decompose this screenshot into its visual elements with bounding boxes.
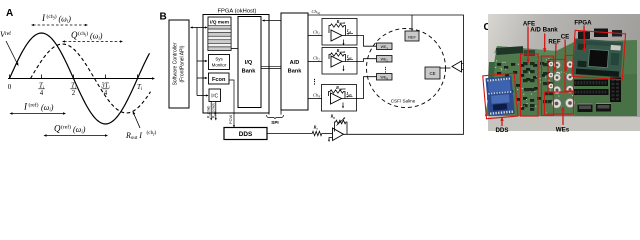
SPI underbrace: [267, 115, 284, 119]
block: Fcon: [209, 73, 230, 84]
svg-text:I/Q mem: I/Q mem: [210, 20, 229, 26]
svg-text:Bank: Bank: [242, 69, 257, 75]
svg-text:Monitor: Monitor: [212, 63, 227, 68]
I(ref)(w_i) span arrow: [12, 113, 65, 115]
svg-text:Fcon: Fcon: [212, 77, 226, 83]
svg-text:Software Controller: Software Controller: [173, 42, 179, 85]
op-amp A2: [331, 56, 342, 67]
red box WEs area: [545, 92, 574, 114]
svg-text:(ref): (ref): [29, 102, 39, 109]
electrode REF box: [405, 31, 419, 41]
Q(ch_j)(w_i) dashed span arrow: [64, 41, 121, 43]
svg-text:4: 4: [40, 90, 44, 97]
red arrow A/D Bank: [544, 34, 546, 53]
svg-text:CE: CE: [429, 71, 435, 76]
svg-text:Ch1: Ch1: [313, 30, 320, 36]
op-amp CE buffer: [452, 61, 462, 72]
red arrow DDS: [501, 117, 503, 126]
wire: bus to I2C: [197, 95, 208, 97]
FPGA daughterboard: [573, 38, 623, 77]
time axis: [8, 78, 153, 80]
svg-text:Ti: Ti: [39, 83, 45, 90]
wire: Rs to op-amp: [323, 133, 333, 135]
wire: REF electrode drop: [411, 15, 413, 31]
red box FPGA: [572, 30, 626, 79]
svg-text:A/D Bank: A/D Bank: [530, 27, 558, 34]
block: A/D Bank: [281, 13, 308, 110]
wire: SPI line from A/D Bank: [280, 110, 282, 115]
svg-text:Rout1: Rout1: [337, 19, 346, 25]
svg-text:Q: Q: [71, 30, 78, 40]
wire: I/Q Bank to A/D Bank bus: [261, 65, 281, 67]
wire: FCW frequency control word: [229, 80, 234, 127]
ground of op-amp 1: [343, 40, 345, 45]
red arrow WEs: [562, 107, 564, 125]
svg-text:WEs: WEs: [556, 127, 570, 134]
I(ch_j)(w_i) dashed span arrow: [33, 24, 86, 26]
svg-text:Sys: Sys: [215, 57, 223, 62]
op-amp stim driver: [333, 128, 344, 141]
svg-text:Ch2: Ch2: [313, 56, 320, 62]
electrode CE box: [425, 67, 440, 79]
svg-text:Chref: Chref: [312, 9, 322, 15]
svg-text:(ωi): (ωi): [41, 103, 54, 113]
svg-text:FPGA: FPGA: [574, 20, 592, 27]
svg-text:CE: CE: [561, 34, 570, 41]
red box DDS: [483, 73, 518, 119]
svg-text:3Ti: 3Ti: [100, 83, 110, 90]
block: FPGA (okHost) enclosure: [203, 15, 269, 114]
DDS daughterboard (blue): [485, 76, 514, 116]
svg-text:REF: REF: [408, 36, 416, 40]
electrode WE box: [377, 43, 393, 50]
solid reference sine Vref: [10, 33, 150, 124]
Vref pointer arrow: [6, 41, 18, 64]
red arrow CE: [565, 40, 566, 72]
svg-text:(FrontPanel API): (FrontPanel API): [180, 45, 186, 82]
svg-text:FCW: FCW: [228, 115, 233, 124]
TIA cell 1 enclosure: [322, 19, 357, 46]
wire: SPI line from I/Q Bank: [268, 108, 270, 115]
wire: channel 2 line A/D to TIA: [308, 61, 322, 63]
white components row REF: [549, 62, 554, 67]
svg-text:Rg: Rg: [331, 114, 336, 120]
CSF/Saline bath dashed circle: [367, 29, 446, 108]
svg-text:B: B: [160, 12, 167, 23]
pin header vertical right: [610, 78, 621, 103]
edge slot connector 2: [596, 103, 611, 112]
TIA cell 2 enclosure: [322, 48, 357, 75]
wire: TIA N output to WEN: [342, 77, 377, 99]
svg-text:(ωi): (ωi): [59, 15, 72, 25]
svg-text:(ωi): (ωi): [73, 125, 86, 135]
AFE / ADC chip clusters: [523, 62, 528, 65]
Rout pointer arrow: [134, 113, 141, 128]
svg-text:⋮: ⋮: [383, 67, 389, 74]
svg-text:DDS: DDS: [495, 127, 508, 134]
wire: TIA 2 output to WE2: [342, 59, 377, 62]
op-amp AN: [331, 93, 342, 104]
wire: controller fan-out bus: [196, 28, 198, 96]
feedback resistor Rout2: [329, 53, 346, 62]
ground of stim op-amp: [329, 138, 333, 142]
board left edge connector: [487, 62, 495, 100]
wire: channel N line A/D to TIA: [308, 98, 322, 100]
board small ICs: [497, 63, 501, 66]
svg-text:A: A: [6, 8, 13, 19]
wire: DDS output: [267, 133, 311, 135]
svg-text:I/Q: I/Q: [245, 60, 253, 66]
red box CE area: [565, 56, 574, 92]
red box AFE: [521, 54, 539, 116]
svg-text:FPGA (okHost): FPGA (okHost): [218, 9, 257, 15]
svg-text:I2C: I2C: [211, 94, 218, 100]
wire: TIA 1 output to WE1: [342, 36, 377, 47]
board silkscreen specks: [518, 64, 519, 65]
wire: channel 1 line A/D to TIA: [308, 35, 322, 37]
wire: controller to I/Q mem: [191, 27, 207, 29]
wire: bus to Sys Monitor: [197, 60, 207, 62]
axis ticks: [9, 75, 11, 80]
red arrow FPGA: [583, 26, 586, 53]
svg-text:Rout2: Rout2: [337, 48, 346, 54]
svg-text:(ref): (ref): [61, 124, 71, 131]
wire: bus to Fcon: [197, 77, 207, 79]
feedback variable resistor Rg: [335, 120, 348, 134]
wire: A/D to I/Q Bank arrow: [263, 20, 282, 22]
svg-text:Q: Q: [54, 124, 61, 134]
wire: Rs(cmd) control line: [210, 102, 212, 120]
ground of op-amp N: [342, 103, 344, 108]
svg-text:2: 2: [72, 90, 76, 97]
block: I/Q mem memory stack: [208, 17, 231, 51]
block: DDS: [224, 128, 267, 140]
svg-text:CSF/ Saline: CSF/ Saline: [391, 99, 416, 104]
svg-text:SPI: SPI: [271, 120, 278, 125]
svg-text:⋮: ⋮: [311, 78, 318, 86]
resistor Rs: [311, 131, 323, 135]
svg-text:(chj): (chj): [47, 13, 57, 20]
feedback resistor Rout1: [329, 24, 346, 36]
red box REF area: [548, 60, 565, 93]
svg-text:DDS: DDS: [239, 131, 253, 138]
edge slot connector 1: [578, 104, 593, 113]
BNC connectors WEs: [553, 61, 561, 69]
svg-text:Bank: Bank: [288, 69, 303, 75]
svg-text:(chj): (chj): [147, 129, 157, 136]
wire: Ch_ref / right rail net: [308, 15, 464, 134]
pin header long 1: [573, 80, 608, 87]
TIA cell N enclosure: [322, 85, 357, 112]
dashed channel sine: [31, 44, 151, 113]
block: I/Q Bank: [238, 17, 261, 108]
wire: buffer output to CE: [440, 67, 451, 69]
board connector strip top-left: [496, 46, 523, 55]
wire: I/Q mem to I/Q Bank: [231, 48, 238, 50]
red arrow AFE: [527, 27, 529, 64]
block: I2C: [209, 89, 221, 102]
wire: Rout(cmd) control line: [215, 102, 217, 120]
feedback resistor RoutN: [329, 90, 346, 99]
electrode WE box: [377, 74, 393, 81]
svg-text:(ωi): (ωi): [90, 32, 103, 42]
svg-text:RoutN: RoutN: [336, 85, 346, 91]
svg-text:REF: REF: [548, 39, 561, 46]
electrode WE box: [377, 56, 393, 63]
pin header long 2: [573, 89, 609, 95]
ground of op-amp 2: [343, 66, 345, 71]
svg-text:(chj): (chj): [78, 30, 88, 37]
block: Sys Monitor: [209, 55, 230, 70]
svg-text:A/D: A/D: [290, 60, 300, 66]
red box A/D bank column: [542, 56, 554, 116]
red arrow REF: [555, 44, 556, 71]
op-amp A1: [331, 30, 342, 41]
Q(ref)(w_i) span arrow: [46, 135, 107, 137]
block: Software Controller (FrontPanel API): [169, 20, 189, 108]
svg-text:0: 0: [8, 83, 12, 91]
connectors on FPGA module top: [578, 32, 590, 40]
svg-text:ChN: ChN: [313, 93, 321, 99]
main PCB board: [485, 40, 637, 116]
